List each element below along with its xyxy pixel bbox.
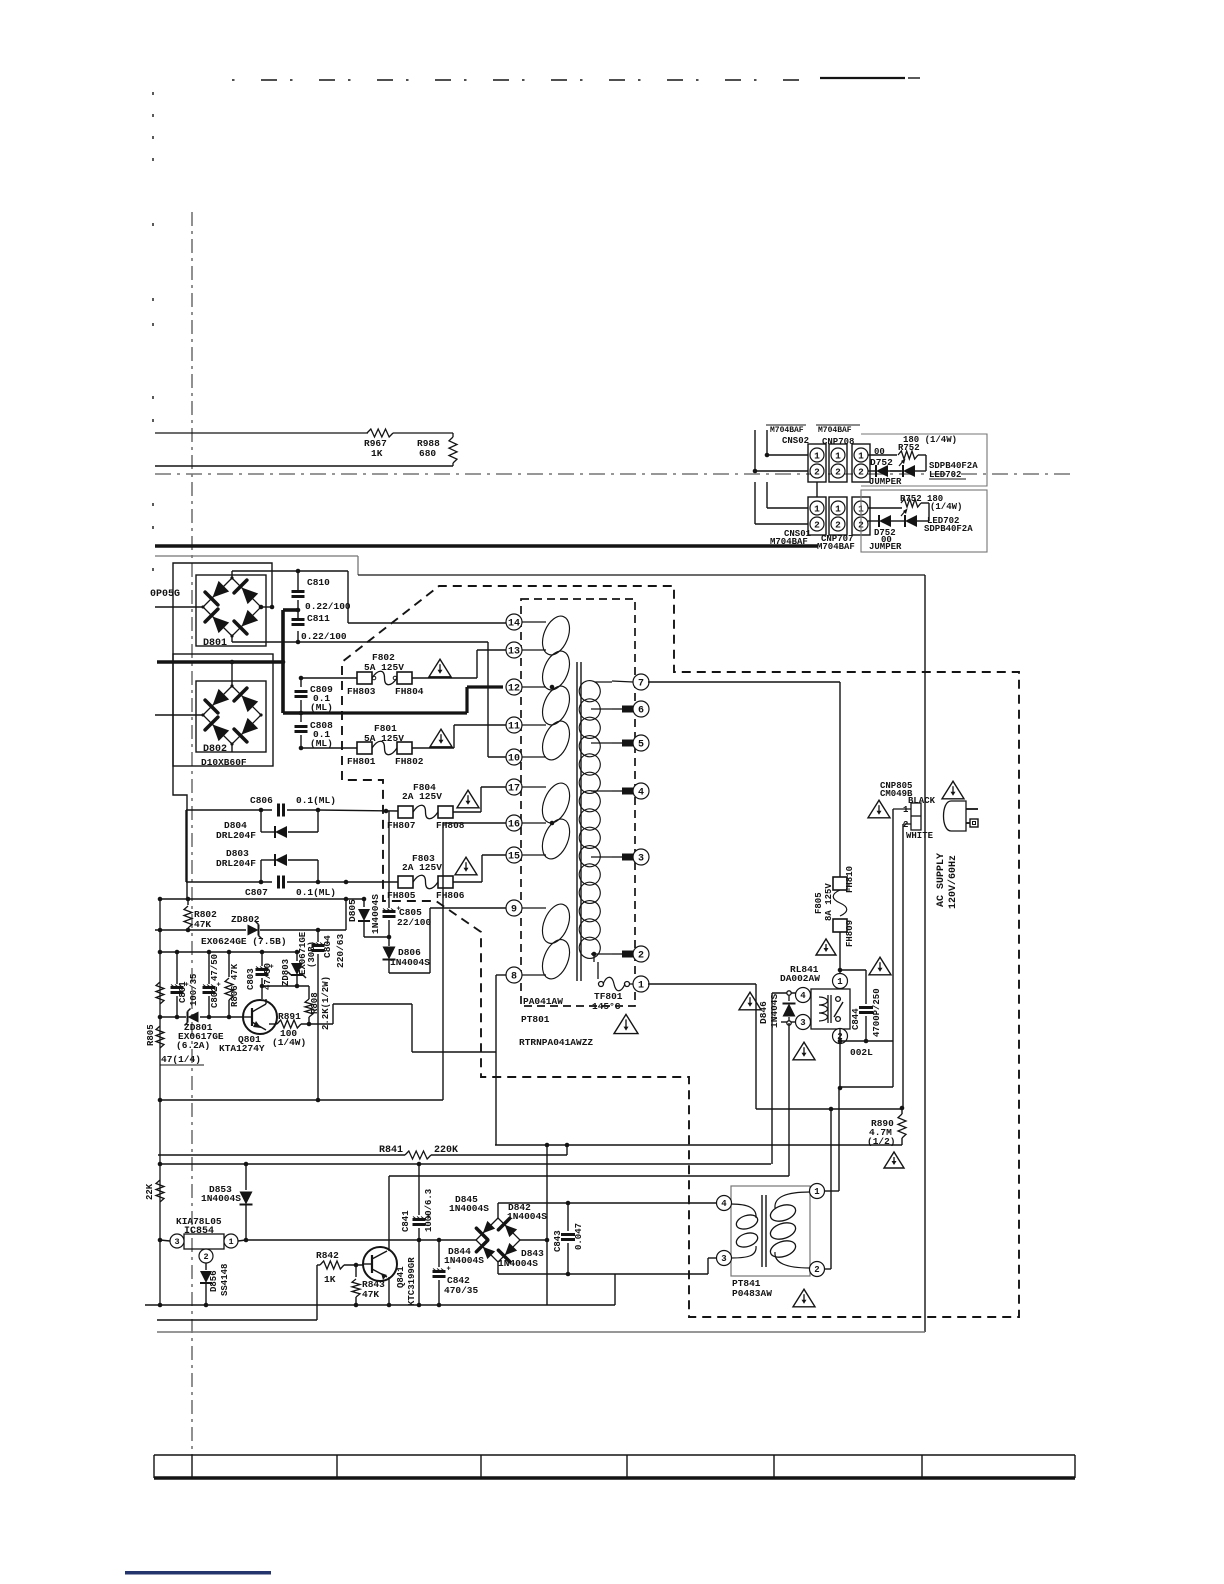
PT841 pin 3 xyxy=(717,1251,732,1266)
wire AC vertical xyxy=(924,575,926,1332)
svg-text:BLACK: BLACK xyxy=(908,796,936,806)
svg-text:D752: D752 xyxy=(870,457,893,468)
diode D804 xyxy=(216,808,320,841)
svg-text:R841: R841 xyxy=(379,1145,403,1156)
resistor R802 xyxy=(184,899,217,932)
transformer T801 dashed box xyxy=(521,599,635,1006)
warning triangle xyxy=(614,1014,638,1033)
svg-text:C810: C810 xyxy=(307,577,330,588)
capacitor C809 xyxy=(295,676,334,713)
label 120V/60Hz xyxy=(947,855,959,909)
svg-text:2: 2 xyxy=(858,466,864,477)
svg-text:ZD802: ZD802 xyxy=(231,914,260,925)
relay RL841 xyxy=(811,989,850,1029)
wire pin1 T801 net xyxy=(648,984,904,1111)
wire pin2 to TF801 xyxy=(592,952,598,979)
fuse F804 holder FH808 xyxy=(436,806,465,831)
svg-text:D801: D801 xyxy=(203,638,227,649)
fuse F801 holder FH802 xyxy=(395,742,424,767)
wire xyxy=(185,810,187,882)
svg-text:2: 2 xyxy=(814,466,820,477)
svg-text:1K: 1K xyxy=(324,1274,336,1285)
svg-text:2A 125V: 2A 125V xyxy=(402,791,442,802)
svg-text:PT801: PT801 xyxy=(521,1014,550,1025)
label D20P05G (clipped) xyxy=(150,589,180,600)
label 2 xyxy=(903,820,908,830)
relay pin 2 xyxy=(833,1029,848,1044)
connector CNS01 box xyxy=(808,497,826,535)
transformer pin 9 xyxy=(506,900,546,916)
svg-text:R805: R805 xyxy=(146,1024,156,1046)
transformer pin 17 xyxy=(506,779,546,795)
fuse F803 holder FH805 xyxy=(387,876,416,901)
PT841 secondary coil xyxy=(768,1192,810,1268)
label P0483AW xyxy=(732,1288,772,1299)
svg-text:C843: C843 xyxy=(553,1230,563,1252)
label PT841 xyxy=(732,1278,761,1289)
wire xyxy=(868,503,929,521)
fuse F801 holder FH801 xyxy=(347,742,376,767)
wire xyxy=(157,1319,317,1321)
transistor Q841 xyxy=(363,1176,417,1306)
wire xyxy=(431,1145,567,1155)
svg-text:4700P/250: 4700P/250 xyxy=(872,988,882,1037)
wire gray to AC line xyxy=(155,556,925,575)
label 5A 125V xyxy=(364,733,404,744)
warning triangle xyxy=(869,957,891,975)
svg-text:2: 2 xyxy=(903,820,908,830)
label LED702 (upper) xyxy=(929,470,966,480)
wire xyxy=(753,430,808,473)
svg-text:47K: 47K xyxy=(194,919,211,930)
svg-text:C844: C844 xyxy=(851,1008,861,1030)
fuse F802 holder FH803 xyxy=(347,672,376,697)
bridge rectifier D801 xyxy=(196,575,266,649)
label 5A 125V xyxy=(364,662,404,673)
svg-text:0.047: 0.047 xyxy=(574,1223,584,1250)
wire 002L loop xyxy=(838,1029,893,1090)
wire thick xyxy=(283,711,301,715)
wire xyxy=(232,569,348,578)
warning triangle xyxy=(868,800,890,818)
label 00 (lower) xyxy=(881,535,892,545)
svg-text:FH802: FH802 xyxy=(395,756,424,767)
resistor R806 xyxy=(225,952,240,1017)
wire PT841 pin1 xyxy=(824,1088,839,1191)
PT841 primary coil xyxy=(731,1204,759,1258)
wire relay coil feeds xyxy=(772,993,789,1176)
svg-text:C804: C804 xyxy=(322,935,333,958)
label 1N4004S xyxy=(498,1258,538,1269)
fuse F805 holder FH809 xyxy=(833,919,855,947)
warning triangle xyxy=(816,939,836,955)
svg-text:3: 3 xyxy=(174,1237,179,1247)
diode D752 (upper) xyxy=(868,457,893,477)
svg-text:SDPB40F2A: SDPB40F2A xyxy=(924,524,973,534)
fuse F802 holder FH804 xyxy=(395,672,424,697)
label 1N4004S xyxy=(444,1255,484,1266)
warning triangle xyxy=(884,1152,904,1168)
svg-text:1: 1 xyxy=(837,977,843,987)
ferrite bead pin 3 xyxy=(591,854,633,861)
svg-text:FH808: FH808 xyxy=(436,820,465,831)
svg-text:C801: C801 xyxy=(178,981,188,1003)
fuse F801 element xyxy=(372,741,397,755)
thermal fuse TF801 xyxy=(592,977,630,1012)
wire xyxy=(318,809,398,814)
resistor R843 xyxy=(352,1265,385,1305)
wire xyxy=(755,482,808,524)
svg-text:R808: R808 xyxy=(310,992,320,1014)
svg-text:D802: D802 xyxy=(203,744,227,755)
ferrite bead pin 6 xyxy=(591,706,633,713)
warning triangle xyxy=(739,992,761,1010)
svg-text:0P05G: 0P05G xyxy=(150,589,180,600)
svg-text:17: 17 xyxy=(508,784,520,795)
capacitor C806 xyxy=(186,795,336,817)
transformer pin 5 xyxy=(633,735,649,751)
PT841 pin 2 xyxy=(810,1262,825,1277)
svg-text:2: 2 xyxy=(835,519,841,530)
svg-text:RTRNPA041AWZZ: RTRNPA041AWZZ xyxy=(519,1037,593,1048)
svg-text:1: 1 xyxy=(814,450,820,461)
PT841 pin 4 xyxy=(717,1196,732,1211)
svg-text:0.1(ML): 0.1(ML) xyxy=(296,887,336,898)
wire xyxy=(765,430,808,457)
transformer PT841 box xyxy=(731,1186,810,1276)
diode D856 xyxy=(200,1263,230,1305)
svg-text:4: 4 xyxy=(638,788,644,799)
svg-text:FH801: FH801 xyxy=(347,756,376,767)
capacitor C807 xyxy=(186,876,336,899)
relay pin 1 xyxy=(833,970,848,989)
svg-text:1: 1 xyxy=(835,503,841,514)
wire xyxy=(781,1021,796,1023)
zener diode ZD803 xyxy=(281,931,317,986)
svg-text:(30B): (30B) xyxy=(307,941,317,968)
svg-text:C803: C803 xyxy=(246,968,256,990)
resistor R805 lower xyxy=(146,1024,164,1048)
svg-text:0.22/100: 0.22/100 xyxy=(305,601,351,612)
horizontal dash-dot reference line xyxy=(155,473,1072,475)
wire box around D801 region xyxy=(173,563,272,899)
label 1N4004S xyxy=(507,1211,547,1222)
T801 winding group 3 xyxy=(537,900,575,983)
bottom table band xyxy=(154,1455,1075,1478)
svg-text:1N4004S: 1N4004S xyxy=(498,1258,538,1269)
wire xyxy=(158,1154,405,1156)
resistor R967 xyxy=(364,429,393,459)
label PA041AW xyxy=(523,996,563,1007)
wire thick xyxy=(283,610,298,713)
svg-text:3: 3 xyxy=(800,1018,805,1028)
svg-text:FH810: FH810 xyxy=(845,866,855,893)
KIA78L05 pin 2 xyxy=(199,1249,213,1263)
wire AC white down xyxy=(902,824,904,1108)
svg-text:1: 1 xyxy=(814,1187,820,1197)
ferrite bead pin 5 xyxy=(591,740,633,747)
fuse F804 holder FH807 xyxy=(387,806,416,831)
fuse F803 element xyxy=(413,875,438,889)
label M704BAF xyxy=(770,537,808,547)
transformer pin 10 xyxy=(506,749,546,765)
svg-text:1: 1 xyxy=(638,981,644,992)
svg-text:120V/60Hz: 120V/60Hz xyxy=(947,855,959,909)
label DA002AW xyxy=(780,973,820,984)
svg-text:M704BAF: M704BAF xyxy=(818,426,852,435)
transistor Q801 xyxy=(219,999,277,1054)
transformer pin 15 xyxy=(506,847,546,863)
wire thick xyxy=(157,660,285,665)
svg-text:FH803: FH803 xyxy=(347,686,376,697)
label D843 xyxy=(521,1248,544,1259)
PT841 pin 1 xyxy=(810,1184,825,1199)
label SDPB40F2A (lower) xyxy=(924,524,973,534)
bottom-left navy rule xyxy=(125,1571,271,1575)
transformer pin 6 xyxy=(633,701,649,717)
wire xyxy=(259,605,275,610)
svg-text:ZD803: ZD803 xyxy=(281,959,291,986)
transformer pin 16 xyxy=(506,815,546,831)
wire xyxy=(260,984,309,989)
wire xyxy=(364,935,391,940)
svg-text:1N4004S: 1N4004S xyxy=(390,957,430,968)
wire to pin 13 xyxy=(412,650,507,678)
wire xyxy=(155,432,453,434)
transformer pin 8 xyxy=(506,967,546,983)
wire xyxy=(299,700,304,715)
connector CNP805 xyxy=(911,803,921,830)
svg-text:FH807: FH807 xyxy=(387,820,416,831)
fuse F805 holder FH810 xyxy=(833,866,855,893)
svg-text:7: 7 xyxy=(638,679,644,690)
label D842 xyxy=(508,1202,531,1213)
connector CNS02 box xyxy=(808,444,826,482)
label 220K xyxy=(434,1145,458,1156)
svg-text:C806: C806 xyxy=(250,795,273,806)
diode D846 xyxy=(758,991,796,1028)
svg-text:SS4148: SS4148 xyxy=(220,1264,230,1296)
svg-text:C807: C807 xyxy=(245,887,268,898)
svg-text:EX0624GE (7.5B): EX0624GE (7.5B) xyxy=(201,936,287,947)
dashed isolation boundary xyxy=(342,586,1019,1317)
svg-text:2: 2 xyxy=(203,1252,208,1262)
label RTRNPA041AWZZ xyxy=(519,1037,593,1048)
connector CNP707 box A xyxy=(829,497,847,535)
wire left rail xyxy=(158,897,163,1305)
wire bridge output bottom xyxy=(498,1258,717,1276)
svg-text:11: 11 xyxy=(508,722,520,733)
svg-text:FH809: FH809 xyxy=(845,920,855,947)
regulator KIA78L05 xyxy=(184,1234,224,1249)
T801 core xyxy=(577,662,581,981)
wire box around D802 region xyxy=(173,654,273,766)
svg-text:0.22/100: 0.22/100 xyxy=(301,631,347,642)
capacitor C803 xyxy=(246,952,274,999)
wire xyxy=(296,600,301,612)
wire xyxy=(318,880,398,885)
label 2A 125V xyxy=(402,791,442,802)
svg-text:D805: D805 xyxy=(347,899,358,922)
resistor R842 xyxy=(317,1261,363,1320)
svg-text:16: 16 xyxy=(508,820,520,831)
transformer pin 2 xyxy=(633,946,649,962)
svg-text:M704BAF: M704BAF xyxy=(770,426,804,435)
ferrite bead pin 4 xyxy=(591,788,633,795)
resistor R890 xyxy=(867,1108,906,1147)
wire xyxy=(301,747,357,749)
transformer pin 12 xyxy=(506,679,546,695)
svg-text:100/35: 100/35 xyxy=(189,974,199,1006)
svg-text:14: 14 xyxy=(508,619,520,630)
label CNP707 xyxy=(821,534,853,544)
wire xyxy=(546,1145,548,1305)
fuse F802 element xyxy=(372,671,397,685)
svg-text:9: 9 xyxy=(511,905,517,916)
wire pin 7 xyxy=(612,681,633,682)
svg-text:(6.2A): (6.2A) xyxy=(176,1040,210,1051)
fuse F804 element xyxy=(413,805,438,819)
svg-text:2A 125V: 2A 125V xyxy=(402,862,442,873)
svg-text:JUMPER: JUMPER xyxy=(869,542,902,552)
svg-text:1000/6.3: 1000/6.3 xyxy=(424,1189,434,1232)
capacitor C810 xyxy=(292,577,351,612)
svg-text:1N4004S: 1N4004S xyxy=(201,1193,241,1204)
svg-text:3: 3 xyxy=(638,854,644,865)
resistor R752 (lower) xyxy=(901,499,921,507)
warning triangle xyxy=(455,857,477,875)
wire xyxy=(155,714,203,716)
wire xyxy=(772,992,796,994)
wire xyxy=(260,899,346,930)
svg-text:8A 125V: 8A 125V xyxy=(824,883,834,921)
svg-text:1N4004S: 1N4004S xyxy=(370,894,381,934)
label D752 (lower) xyxy=(874,528,896,538)
wire xyxy=(838,932,843,972)
label (1/4W) lower xyxy=(930,502,962,512)
connector CNP707 box B xyxy=(852,497,870,535)
svg-text:1: 1 xyxy=(228,1237,233,1247)
svg-text:12: 12 xyxy=(508,684,520,695)
label M704BAF xyxy=(817,542,855,552)
svg-text:8: 8 xyxy=(511,972,517,983)
label F802 xyxy=(372,652,395,663)
label 8A 125V xyxy=(824,883,834,921)
wire thick to pin 12 xyxy=(301,687,503,713)
left edge tick marks xyxy=(152,92,154,571)
svg-text:1N4004S: 1N4004S xyxy=(449,1203,489,1214)
wire xyxy=(301,1022,333,1027)
diode D853 xyxy=(201,1164,253,1242)
label R842 xyxy=(316,1250,339,1261)
svg-text:680: 680 xyxy=(419,448,436,459)
svg-text:22K: 22K xyxy=(145,1183,155,1200)
capacitor C804 xyxy=(312,933,347,1100)
box around lower LED group xyxy=(861,490,987,552)
wire xyxy=(200,1015,243,1020)
wire bridge output top xyxy=(498,1201,717,1218)
label R752 180 (lower) xyxy=(900,494,943,504)
svg-text:13: 13 xyxy=(508,647,520,658)
label 00 jumper xyxy=(874,447,885,457)
wire xyxy=(238,1238,476,1243)
wire bottom gray xyxy=(157,1331,925,1333)
wire AC black down xyxy=(892,809,894,1041)
zener diode ZD801 xyxy=(176,1009,224,1052)
svg-text:AC SUPPLY: AC SUPPLY xyxy=(936,853,947,907)
relay pin 4 xyxy=(796,988,811,1003)
label LED702 (lower) xyxy=(927,516,959,526)
KIA78L05 pin 3 xyxy=(170,1234,184,1248)
svg-text:5: 5 xyxy=(638,740,644,751)
T801 primary winding tap dot xyxy=(550,685,555,690)
wire xyxy=(316,928,321,942)
svg-text:2: 2 xyxy=(814,1265,819,1275)
transformer pin 14 xyxy=(506,614,546,630)
wire to pin 9 xyxy=(389,908,507,973)
svg-text:R891: R891 xyxy=(278,1011,301,1022)
label JUMPER (upper) xyxy=(869,477,902,487)
label KIA78L05 xyxy=(176,1216,222,1227)
capacitor C842 xyxy=(433,1240,479,1305)
warning triangle xyxy=(430,729,452,747)
svg-text:FH806: FH806 xyxy=(436,890,465,901)
wire xyxy=(495,1143,902,1148)
label 1N4004S xyxy=(449,1203,489,1214)
capacitor C801 xyxy=(171,952,200,1017)
svg-text:PA041AW: PA041AW xyxy=(523,996,563,1007)
svg-text:0.1(ML): 0.1(ML) xyxy=(296,795,336,806)
label 1 xyxy=(903,805,909,815)
wire xyxy=(893,809,911,824)
PT841 core xyxy=(762,1195,766,1267)
label 180 (1/4W) xyxy=(903,435,957,445)
resistor R841 xyxy=(405,1151,431,1159)
capacitor C844 xyxy=(840,970,882,1043)
svg-text:Q841: Q841 xyxy=(396,1266,406,1288)
wire xyxy=(155,465,453,467)
svg-text:(1/4W): (1/4W) xyxy=(272,1037,306,1048)
svg-text:D846: D846 xyxy=(758,1001,769,1024)
svg-text:FH804: FH804 xyxy=(395,686,424,697)
wire xyxy=(160,1240,170,1241)
svg-text:(ML): (ML) xyxy=(310,702,333,713)
svg-text:1: 1 xyxy=(858,450,864,461)
transformer pin 7 xyxy=(633,674,649,690)
wire xyxy=(160,897,364,902)
svg-text:145°C: 145°C xyxy=(592,1001,621,1012)
svg-text:3: 3 xyxy=(721,1254,726,1264)
wire to pin 14 xyxy=(348,571,507,623)
label D845 xyxy=(455,1194,478,1205)
svg-text:C811: C811 xyxy=(307,613,330,624)
svg-text:(1/4W): (1/4W) xyxy=(930,502,962,512)
diode D806 xyxy=(383,937,431,973)
resistor R808 xyxy=(305,976,331,1030)
wire xyxy=(890,470,901,472)
AC plug CM049B xyxy=(944,801,979,831)
wire xyxy=(614,1274,616,1305)
svg-text:+: + xyxy=(447,1266,451,1274)
LED LED702 (lower) xyxy=(891,509,929,528)
warning triangle xyxy=(942,781,964,799)
label D10XB60F xyxy=(201,757,247,768)
label F805 xyxy=(814,892,824,914)
wire to pin 15 xyxy=(453,855,507,882)
svg-text:D10XB60F: D10XB60F xyxy=(201,757,247,768)
wire xyxy=(160,1162,771,1167)
transformer pin 13 xyxy=(506,642,546,658)
